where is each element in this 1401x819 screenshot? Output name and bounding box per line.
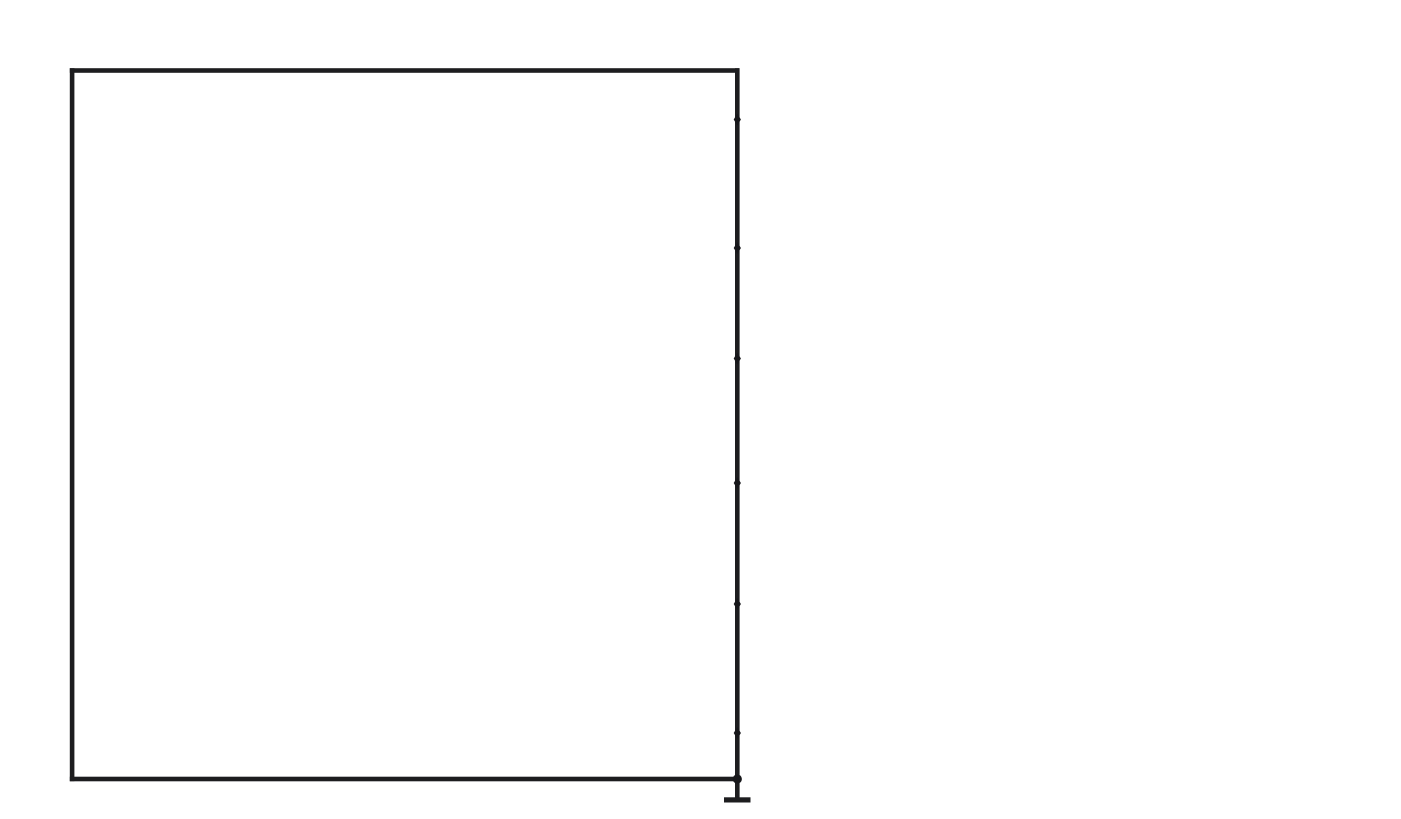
wire top horizontal — [70, 68, 740, 73]
junction below R1 — [734, 242, 741, 254]
wire right vertical — [735, 68, 740, 800]
junction below R2 — [734, 477, 741, 489]
junction below R3 — [734, 727, 741, 739]
junction dot bottom node A — [733, 774, 742, 783]
ground bar — [724, 797, 751, 802]
current arrow above R1 — [734, 114, 741, 126]
wire bottom horizontal — [70, 777, 740, 782]
junction above R2 — [734, 353, 741, 365]
junction above R3 — [734, 598, 741, 610]
wire left vertical — [70, 68, 75, 781]
